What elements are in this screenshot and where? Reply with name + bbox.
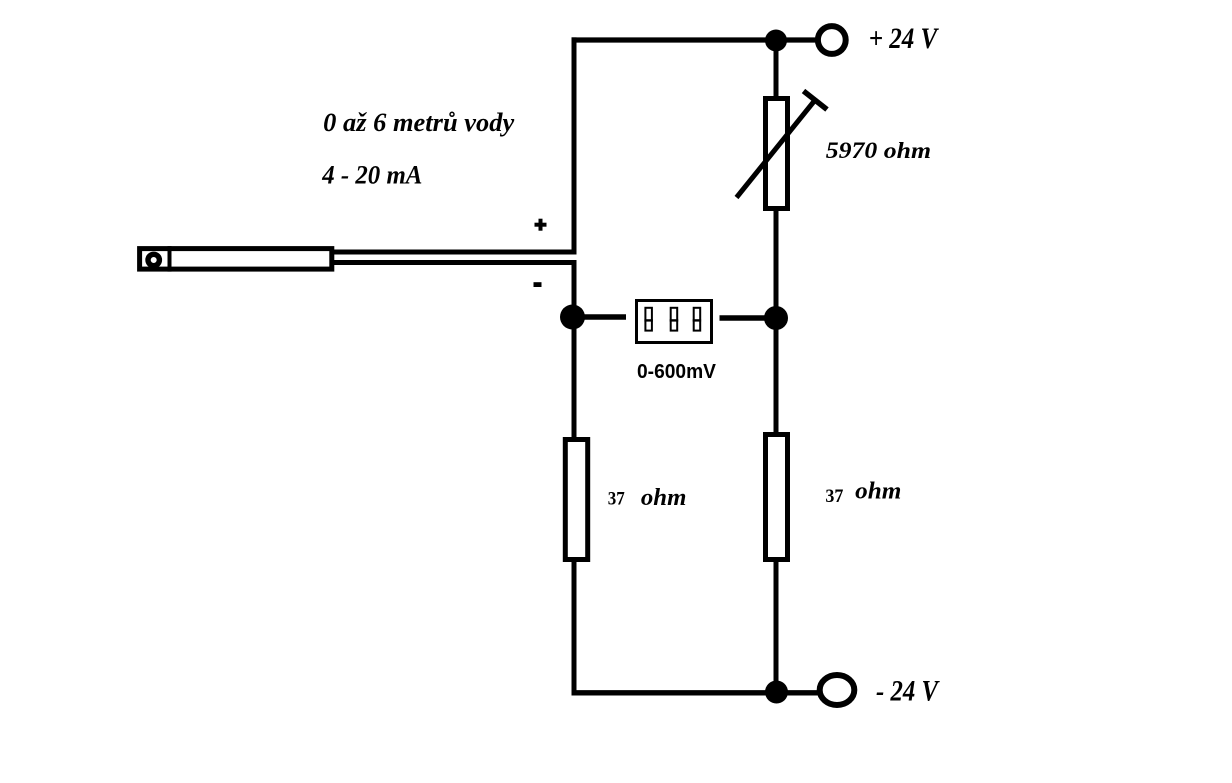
resistor right 37 ohm bbox=[766, 435, 788, 560]
wire: meter right lead bbox=[720, 315, 766, 321]
variable resistor arrow crossbar bbox=[804, 91, 828, 110]
svg-text:5970 ohm: 5970 ohm bbox=[826, 138, 931, 163]
svg-text:- 24 V: - 24 V bbox=[876, 676, 940, 708]
plus sign at sensor + lead bbox=[535, 223, 547, 227]
svg-text:+ 24 V: + 24 V bbox=[869, 23, 940, 55]
wire: top rail from left corner to +24V terminal bbox=[572, 37, 817, 42]
wire: sensor - lead (lower twin wire) bbox=[332, 260, 577, 265]
svg-text:0-600mV: 0-600mV bbox=[637, 361, 717, 383]
svg-text:4 - 20 mA: 4 - 20 mA bbox=[321, 160, 422, 189]
sensor probe body bbox=[140, 249, 332, 270]
wire: bottom rail to -24V terminal bbox=[572, 690, 818, 695]
node: mid-right junction bbox=[764, 306, 788, 330]
node: bottom junction bbox=[765, 681, 788, 704]
wire: right vertical rail bbox=[774, 37, 779, 692]
svg-text:ohm: ohm bbox=[855, 479, 901, 505]
wire: left vertical lower segment (through node to bottom rail) bbox=[572, 260, 577, 696]
meter digit 2 bbox=[671, 308, 678, 331]
resistor left 37 ohm bbox=[565, 440, 587, 560]
svg-text:37: 37 bbox=[825, 486, 843, 507]
node: top junction bbox=[765, 30, 787, 52]
terminal: +24V open circle bbox=[818, 26, 846, 54]
sensor eyelet circle bbox=[148, 254, 159, 265]
wire: left vertical upper segment (corner down to + lead) bbox=[572, 37, 577, 254]
node: mid-left junction bbox=[560, 305, 585, 330]
variable resistor body 5970 ohm bbox=[766, 99, 788, 209]
minus sign at sensor - lead bbox=[534, 282, 542, 287]
svg-text:ohm: ohm bbox=[641, 485, 687, 511]
wire: sensor + lead (upper twin wire) bbox=[332, 250, 577, 255]
wire: meter left lead bbox=[583, 314, 626, 320]
meter digit 1 bbox=[645, 308, 652, 331]
meter box 0-600mV bbox=[637, 301, 712, 343]
meter digit 3 bbox=[694, 308, 701, 331]
svg-text:37: 37 bbox=[608, 489, 625, 510]
sensor divider line bbox=[168, 246, 172, 272]
variable resistor diagonal arrow bbox=[737, 100, 816, 198]
terminal: -24V open circle bbox=[820, 675, 855, 705]
svg-text:0 až 6 metrů vody: 0 až 6 metrů vody bbox=[323, 108, 514, 137]
